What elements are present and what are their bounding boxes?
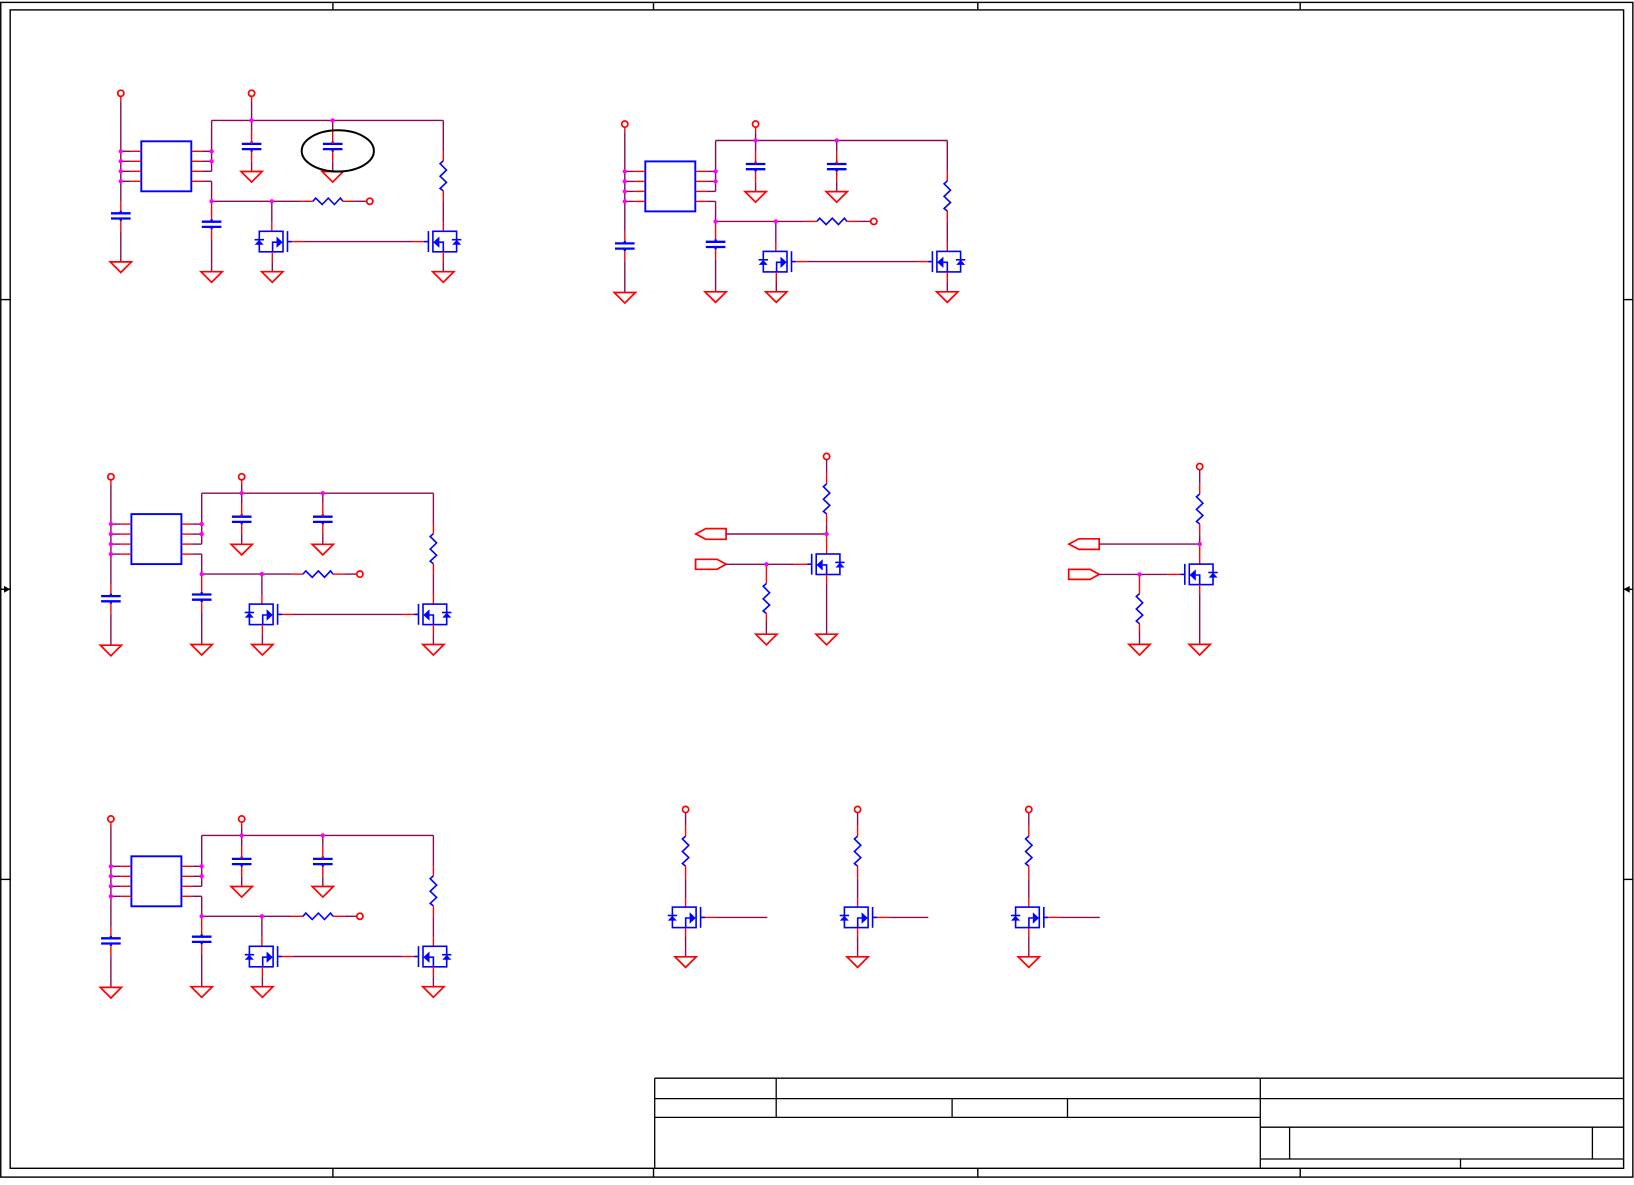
wire R12 to output pin (354, 200, 367, 202)
IC U3 (131, 514, 181, 564)
zone ticks top (333, 2, 1300, 9)
wire R11 to Q12 drain (442, 201, 444, 222)
wire C23 leads (836, 143, 838, 152)
wire FB4 to Q41 drain (261, 918, 263, 937)
IC U2 (645, 161, 695, 211)
output port arrow OUT6 (1069, 539, 1099, 550)
zone ticks bottom (333, 1168, 1300, 1177)
ground Q8 (847, 957, 868, 968)
wire R32 to output pin (344, 573, 357, 575)
wire Q8 source to ground (857, 928, 859, 937)
wire P5 to R51 (826, 460, 828, 474)
transistor Q32 (414, 604, 451, 625)
junction FB2 Q21 (774, 219, 778, 223)
ground C24 (705, 292, 726, 303)
wire U1 pin8 to feedback node (211, 181, 213, 201)
feedback wire node FB2 (716, 220, 806, 222)
ground C12 (241, 172, 262, 183)
wire P1A to U1 pins / C11 (120, 96, 122, 101)
power port P3B (239, 474, 245, 480)
power bus wire VDD2 (716, 140, 948, 142)
capacitor C23 (827, 162, 847, 172)
wire C14 to ground (211, 229, 213, 239)
gate wire Q11 to Q12 (292, 241, 304, 243)
junction FB4 pin8 (200, 914, 204, 918)
U4 right pins 5-8 (182, 866, 202, 896)
gate wire Q7 (705, 916, 716, 918)
input port arrow IN5 (696, 559, 727, 569)
ground Q9 (1018, 957, 1039, 968)
wire P1B to bus (251, 96, 253, 101)
U3 left pins 1-4 (111, 524, 131, 554)
wire P8 to R8 (857, 813, 859, 826)
wire U2 pin8 to feedback node (715, 201, 717, 221)
ground C42 (231, 887, 252, 898)
power port P3A (108, 474, 114, 480)
input port arrow IN6 (1069, 569, 1100, 579)
junction bus pins (713, 169, 717, 173)
junction bus pins (200, 522, 204, 526)
ground Q32 (423, 645, 444, 656)
U2 right pins 5-8 (696, 171, 716, 201)
feedback wire node FB3 (202, 573, 292, 575)
capacitor C13 (323, 142, 343, 152)
capacitor C11 (111, 211, 131, 221)
junction bus C22 (753, 138, 757, 142)
output pin circle O4 (357, 913, 363, 919)
ground Q41 (252, 987, 273, 998)
U3 left pin junctions (109, 522, 113, 556)
wire C34 to ground (201, 602, 203, 612)
wire node to Q5 drain (826, 536, 828, 554)
resistor R12 (302, 200, 313, 202)
ground C33 (312, 544, 333, 555)
output port arrow OUT5 (696, 529, 726, 540)
power port P2B (753, 121, 759, 127)
resistor R8 (854, 836, 860, 866)
wire C12 leads (251, 122, 253, 130)
capacitor C21 (615, 241, 635, 251)
transistor Q12 (424, 231, 461, 252)
U1 left pins 1-4 (121, 151, 142, 181)
wire P2B to bus (755, 127, 757, 132)
power port P9 (1026, 806, 1032, 812)
wire C24 to ground (715, 249, 717, 259)
wire Q5 source to ground (826, 575, 828, 585)
wire R41 to Q42 drain (432, 916, 434, 937)
wire P4A to U4 pins / C41 (110, 822, 112, 827)
transistor Q9 (1011, 907, 1048, 928)
power port P2A (622, 121, 628, 127)
ground Q21 (766, 292, 787, 303)
wire P6 to R61 (1199, 470, 1201, 484)
junction bus pins (209, 149, 213, 153)
U1 right pins 5-8 (192, 151, 212, 181)
wire P4B to bus (241, 822, 243, 827)
resistor R31 (432, 493, 434, 524)
ground C43 (312, 887, 333, 898)
power port P5 (824, 453, 830, 459)
resistor R9 (1026, 836, 1032, 866)
junction bus C13 (331, 118, 335, 122)
resistor R62 (1139, 577, 1141, 594)
wire Q42 source to ground (432, 967, 434, 977)
transistor Q21 (759, 251, 796, 272)
wire R21 to Q22 drain (946, 221, 948, 242)
wire FB2 to Q21 drain (775, 223, 777, 242)
power port P1B (249, 90, 255, 96)
wire C13 leads (332, 122, 334, 130)
ground C21 (614, 293, 635, 304)
center arrow right (1624, 586, 1633, 593)
wire Q6 source to ground (1199, 585, 1201, 595)
ground C32 (231, 544, 252, 555)
transistor Q5 (807, 554, 844, 575)
ground C41 (100, 987, 121, 998)
U3 right pins 5-8 (182, 524, 202, 554)
wire C44 to ground (201, 944, 203, 954)
wire Q12 source to ground (442, 252, 444, 261)
resistor R42 (292, 915, 303, 917)
transistor Q6 (1180, 564, 1217, 585)
wire R9 to Q9 drain (1028, 866, 1030, 879)
junction FB4 Q41 (260, 914, 264, 918)
capacitor C44 (201, 918, 203, 936)
power bus wire VDD3 (202, 492, 434, 494)
capacitor C24 (715, 223, 717, 241)
resistor R61 (1197, 494, 1203, 524)
transistor Q8 (840, 907, 877, 928)
ground Q11 (262, 272, 283, 283)
junction FB1 pin8 (209, 199, 213, 203)
junction bus C33 (321, 491, 325, 495)
gate wire Q41 to Q42 (282, 956, 294, 958)
feedback wire node FB4 (202, 915, 292, 917)
wire bus drop to U2 pins (715, 141, 717, 192)
wire R8 to Q8 drain (857, 866, 859, 879)
capacitor C32 (232, 514, 252, 524)
junction FB3 pin8 (200, 572, 204, 576)
capacitor C31 (101, 594, 121, 604)
U4 left pins 1-4 (111, 866, 131, 896)
wire bus drop to U3 pins (201, 493, 203, 544)
ground C11 (110, 262, 131, 273)
wire R42 to output pin (344, 915, 357, 917)
wire R31 to Q32 drain (432, 574, 434, 595)
wire P3B to bus (241, 480, 243, 485)
transistor Q22 (928, 251, 965, 272)
capacitor C42 (232, 857, 252, 867)
ground Q31 (252, 645, 273, 656)
wire C43 leads (322, 837, 324, 846)
wire C33 leads (322, 495, 324, 504)
ground Q22 (937, 292, 958, 303)
ground R52 (756, 634, 777, 645)
wire U4 pin8 to feedback node (201, 896, 203, 916)
ground Q6 (1189, 644, 1210, 655)
resistor R22 (806, 220, 817, 222)
wire P7 to R7 (685, 813, 687, 826)
U1 left pin junctions (119, 149, 123, 183)
ground C13 (322, 172, 343, 183)
output pin circle O1 (367, 198, 373, 204)
wire C11 to ground (120, 221, 122, 231)
ground C44 (191, 987, 212, 998)
wire R62 to ground (1139, 623, 1141, 630)
junction node 5 (824, 532, 828, 536)
ground C22 (745, 192, 766, 203)
gate wire IN6 to Q6 (1099, 573, 1139, 575)
resistor R7 (682, 836, 688, 866)
wire R61 to node (1199, 524, 1201, 535)
power bus wire VDD4 (202, 834, 434, 836)
wire C31 to ground (110, 604, 112, 614)
gate wire Q9 (1048, 916, 1059, 918)
zone ticks left (1, 300, 10, 880)
resistor R21 (946, 141, 948, 172)
junction FB1 Q11 (270, 199, 274, 203)
capacitor C33 (313, 514, 333, 524)
ground Q5 (816, 634, 837, 645)
wire P9 to R9 (1028, 813, 1030, 826)
transistor Q41 (245, 946, 282, 967)
wire R52 to ground (765, 613, 767, 620)
power port P7 (683, 806, 689, 812)
wire C22 leads (755, 143, 757, 152)
junction gate R62 (1137, 572, 1141, 576)
capacitor C43 (313, 857, 333, 867)
IC U4 (131, 856, 181, 906)
capacitor C14 (211, 203, 213, 221)
junction bus C42 (240, 833, 244, 837)
gate wire Q8 (877, 916, 888, 918)
ground C34 (191, 645, 212, 656)
wire C41 to ground (110, 946, 112, 956)
transistor Q7 (668, 907, 705, 928)
transistor Q42 (414, 946, 451, 967)
ground Q42 (423, 987, 444, 998)
wire Q11 source to ground (271, 252, 273, 261)
wire OUT6 to node (1099, 543, 1200, 545)
power port P1A (118, 90, 124, 96)
power port P6 (1197, 464, 1203, 470)
capacitor C22 (746, 162, 766, 172)
output pin circle O2 (871, 218, 877, 224)
wire Q22 source to ground (946, 272, 948, 282)
resistor R11 (442, 120, 444, 151)
junction bus pins (200, 864, 204, 868)
wire Q7 source to ground (685, 928, 687, 937)
output pin circle O3 (357, 571, 363, 577)
zone ticks right (1624, 300, 1633, 880)
power bus wire VDD1 (212, 119, 444, 121)
annotation ellipse around C12 (302, 130, 374, 171)
wire node to Q6 drain (1199, 546, 1201, 564)
ground R62 (1129, 644, 1150, 655)
junction bus C23 (835, 138, 839, 142)
power port P4B (239, 816, 245, 822)
ground C14 (201, 272, 222, 283)
junction FB2 pin8 (713, 219, 717, 223)
wire R51 to node (826, 514, 828, 525)
wire U3 pin8 to feedback node (201, 554, 203, 574)
wire FB3 to Q31 drain (261, 576, 263, 595)
resistor R51 (823, 484, 829, 514)
junction bus C32 (240, 491, 244, 495)
gate wire IN5 to Q5 (726, 563, 766, 565)
wire bus drop to U1 pins (211, 120, 213, 171)
U2 left pin junctions (623, 169, 627, 203)
wire C21 to ground (624, 251, 626, 261)
wire Q32 source to ground (432, 625, 434, 635)
ground Q7 (675, 957, 696, 968)
wire Q41 source to ground (261, 967, 263, 977)
feedback wire node FB1 (212, 200, 302, 202)
wire R7 to Q7 drain (685, 866, 687, 879)
wire FB1 to Q11 drain (271, 203, 273, 222)
wire Q21 source to ground (775, 272, 777, 282)
junction node 6 (1198, 542, 1202, 546)
wire C42 leads (241, 837, 243, 846)
capacitor C34 (201, 576, 203, 594)
power port P4A (108, 816, 114, 822)
IC U1 (141, 141, 191, 191)
wire C32 leads (241, 495, 243, 504)
wire P3A to U3 pins / C31 (110, 480, 112, 485)
wire OUT5 to node (726, 533, 827, 535)
U4 left pin junctions (109, 864, 113, 898)
resistor R32 (292, 573, 303, 575)
junction gate R52 (764, 562, 768, 566)
junction FB3 Q31 (260, 572, 264, 576)
gate wire Q31 to Q32 (282, 613, 294, 615)
junction bus C43 (321, 833, 325, 837)
transistor Q11 (255, 231, 292, 252)
ground C31 (100, 645, 121, 656)
center arrow left (1, 586, 10, 593)
wire bus drop to U4 pins (201, 835, 203, 886)
power port P8 (855, 806, 861, 812)
title block (655, 1078, 1624, 1168)
junction bus C12 (249, 118, 253, 122)
U2 left pins 1-4 (625, 171, 646, 201)
gate wire Q21 to Q22 (796, 261, 808, 263)
ground C23 (826, 192, 847, 203)
transistor Q31 (245, 604, 282, 625)
wire P2A to U2 pins / C21 (624, 127, 626, 132)
resistor R52 (765, 566, 767, 583)
capacitor C12 (242, 142, 262, 152)
ground Q12 (433, 272, 454, 283)
wire Q9 source to ground (1028, 928, 1030, 937)
wire R22 to output pin (858, 220, 871, 222)
resistor R41 (432, 835, 434, 866)
wire Q31 source to ground (261, 625, 263, 635)
capacitor C41 (101, 936, 121, 946)
